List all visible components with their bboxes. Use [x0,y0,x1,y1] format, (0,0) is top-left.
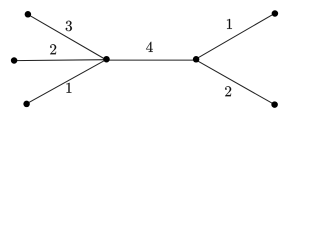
wire: edge H2-D (weight 1) [196,13,275,59]
label 1 on edge C-H1 [66,83,71,93]
label 2 on edge B-H1 [50,44,56,54]
label 4 on edge H1-H2 [146,42,153,52]
node B mid-left [11,57,18,64]
node H1 left hub [103,56,110,63]
label 1 on edge H2-D [227,19,232,29]
wire: edge C-H1 (weight 1) [27,59,107,103]
wire: edge B-H1 (weight 2) [14,59,106,62]
wire: edge A-H1 (weight 3) [28,14,107,60]
label 2 on edge H2-E [225,86,231,96]
node A top-left [25,11,32,17]
node E bottom-right [271,101,278,108]
wire: edge H1-H2 (weight 4) [107,59,197,61]
label 3 on edge A-H1 [66,21,72,31]
wire: edge H2-E (weight 2) [196,60,275,105]
node D top-right [272,10,279,17]
node H2 right hub [193,56,200,63]
node C bottom-left [23,101,30,108]
